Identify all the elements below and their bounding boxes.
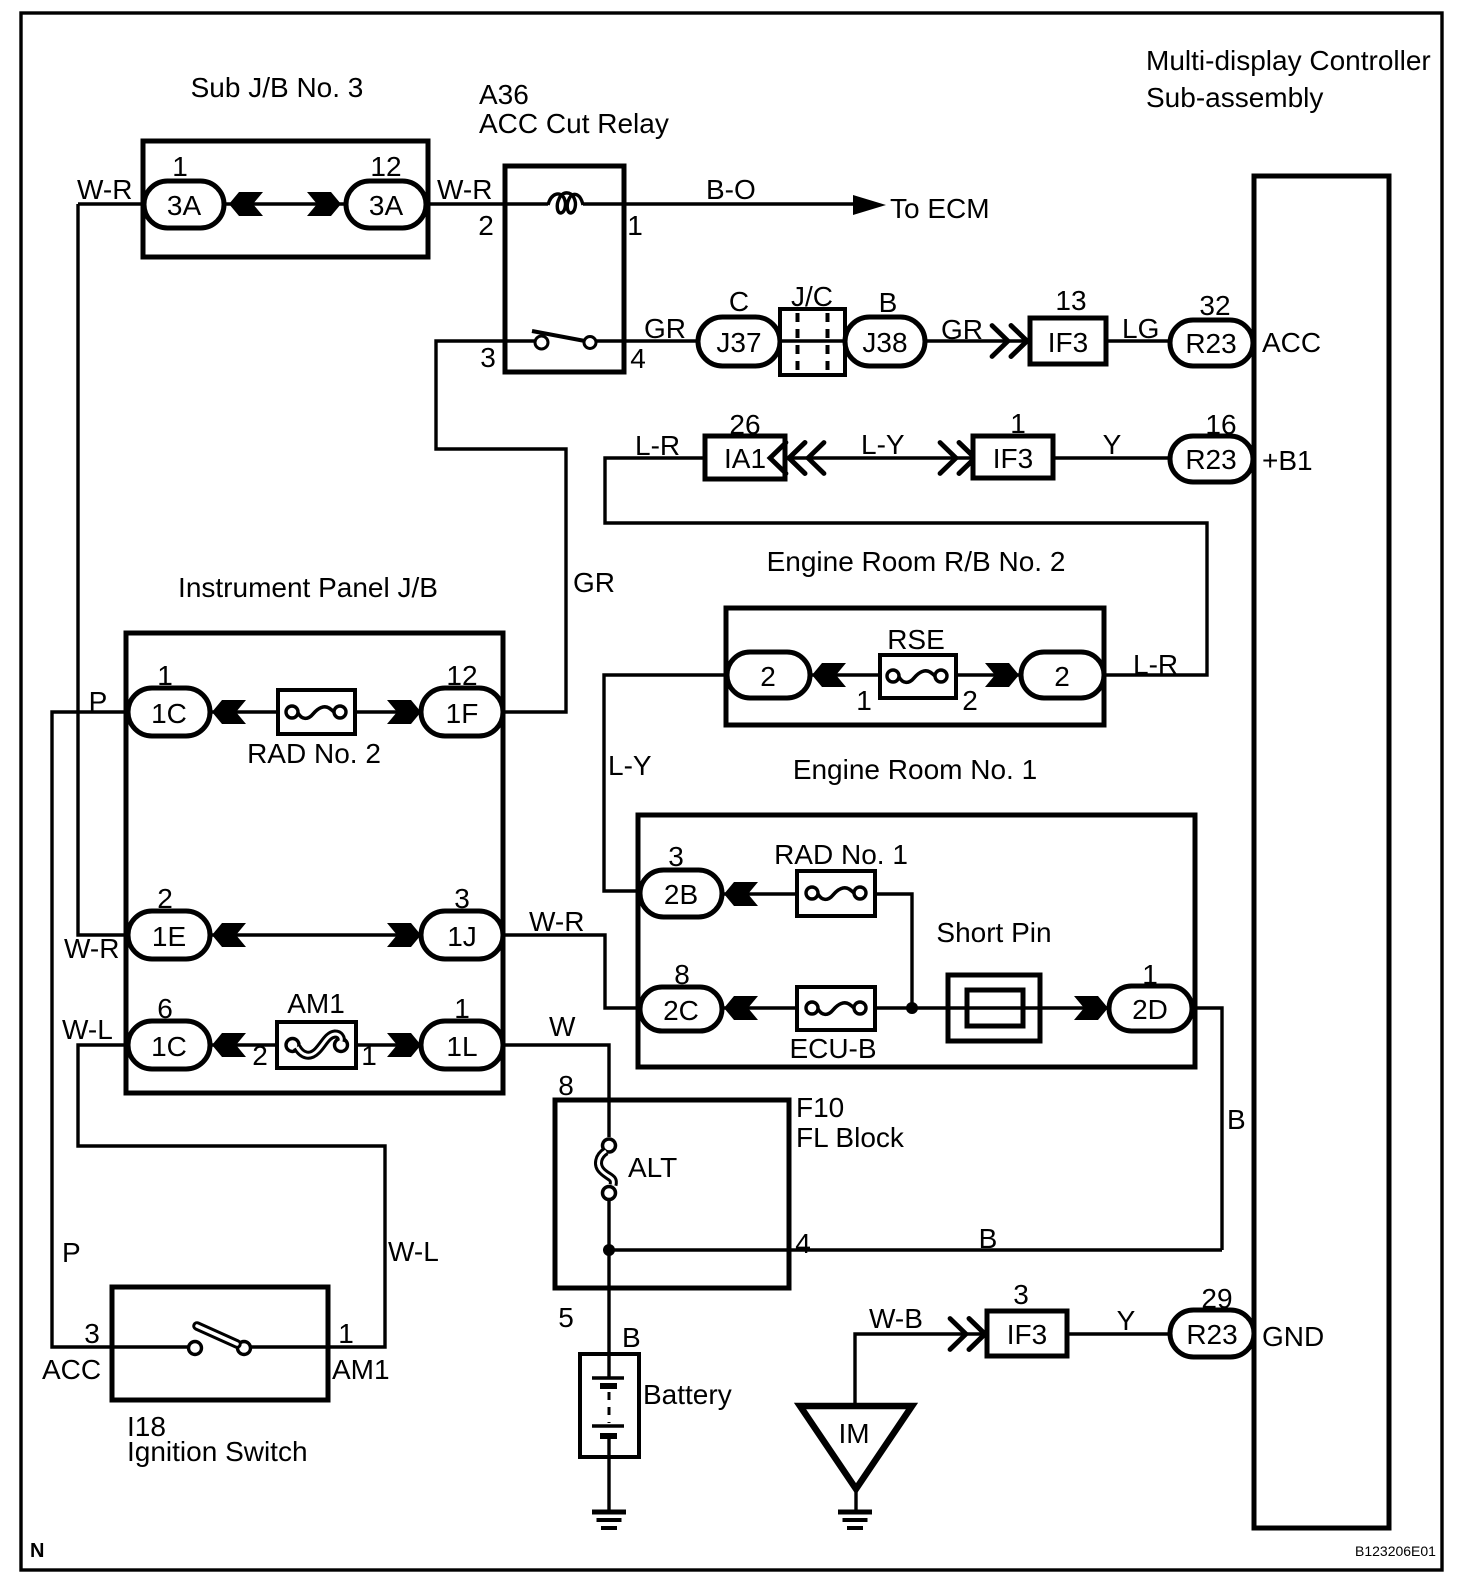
wire row 1 (210, 710, 421, 713)
fusible link AM1 symbol (286, 1034, 348, 1055)
fuse RAD No.1 box (797, 871, 875, 916)
svg-text:FL Block: FL Block (796, 1122, 905, 1153)
svg-text:R23: R23 (1186, 1319, 1237, 1350)
svg-text:2B: 2B (664, 879, 698, 910)
svg-text:3A: 3A (369, 190, 404, 221)
relay switch blade (532, 331, 585, 341)
svg-text:J/C: J/C (791, 281, 833, 312)
svg-text:W-L: W-L (62, 1014, 113, 1045)
arrow right row1 (387, 700, 421, 724)
arrow right row2 (387, 923, 421, 947)
relay switch contacts (535, 336, 548, 349)
short pin inner box (967, 990, 1023, 1026)
svg-text:26: 26 (729, 409, 760, 440)
Multi-display Controller box (1254, 176, 1389, 1528)
Engine Room No. 1 box (638, 815, 1195, 1067)
svg-text:B: B (1227, 1104, 1246, 1135)
Instrument Panel J/B box (126, 633, 503, 1093)
connector 3A pin 1 (144, 181, 224, 228)
svg-text:4: 4 (630, 343, 646, 374)
wire W-R left into Sub J/B (78, 202, 144, 205)
svg-text:2: 2 (157, 883, 173, 914)
svg-text:Engine Room No. 1: Engine Room No. 1 (793, 754, 1037, 785)
svg-text:Sub J/B No. 3: Sub J/B No. 3 (191, 72, 364, 103)
fusible link ALT (599, 1139, 616, 1200)
svg-text:ACC Cut Relay: ACC Cut Relay (479, 108, 669, 139)
svg-text:3: 3 (84, 1318, 100, 1349)
connector 2D pin 1 (1109, 986, 1192, 1031)
relay switch wires (505, 339, 624, 342)
chevrons right L-Y (940, 443, 975, 474)
svg-text:ECU-B: ECU-B (789, 1033, 876, 1064)
wire GR J38 to IF3 (925, 339, 1030, 342)
svg-text:J38: J38 (862, 327, 907, 358)
svg-text:1: 1 (856, 685, 872, 716)
ignition switch box I18 (112, 1287, 328, 1400)
wire between 3A connectors (224, 202, 344, 205)
fuse RAD No.1 symbol (806, 887, 866, 899)
wire Y (1053, 456, 1170, 459)
svg-text:W-B: W-B (869, 1303, 923, 1334)
arrow left 2B (724, 882, 758, 906)
ground IM (838, 1512, 872, 1528)
wire LG (1106, 339, 1170, 342)
ground battery (592, 1512, 626, 1528)
chevrons W-B (950, 1319, 985, 1350)
svg-text:1J: 1J (447, 921, 477, 952)
connector 2 right (1021, 652, 1104, 698)
junction dot (603, 1244, 615, 1256)
svg-text:W: W (549, 1011, 576, 1042)
svg-text:12: 12 (370, 151, 401, 182)
wire row 3 (210, 1043, 421, 1046)
arrow left at 3A (229, 192, 263, 216)
connector 1L pin 1 (421, 1021, 503, 1069)
svg-text:IF3: IF3 (1048, 327, 1088, 358)
ignition switch blade (197, 1326, 237, 1344)
svg-text:R23: R23 (1185, 444, 1236, 475)
wire L-R from IA1 down and right (605, 458, 1207, 675)
svg-text:GR: GR (573, 567, 615, 598)
svg-text:ALT: ALT (628, 1152, 677, 1183)
arrow right at 3A (307, 192, 341, 216)
svg-text:B: B (879, 287, 898, 318)
connector 1C pin 6 (128, 1021, 210, 1069)
wire W-R Sub J/B to relay (426, 202, 505, 205)
svg-text:To ECM: To ECM (890, 193, 990, 224)
svg-text:4: 4 (795, 1228, 811, 1259)
wire B from 2D down (1192, 1008, 1222, 1250)
wire W-L from 1C to ignition switch (78, 1045, 385, 1347)
fuse RSE symbol (887, 670, 947, 682)
fuse RSE box (880, 655, 956, 698)
arrow right row3 (387, 1033, 421, 1057)
svg-text:3: 3 (1013, 1279, 1029, 1310)
svg-text:1: 1 (627, 210, 643, 241)
wire IM to ground (854, 1489, 857, 1511)
Sub J/B No. 3 box (143, 141, 428, 257)
wire W-B from IM up and right (855, 1334, 987, 1406)
svg-text:Multi-display Controller: Multi-display Controller (1146, 45, 1431, 76)
svg-text:RAD No. 1: RAD No. 1 (774, 839, 908, 870)
svg-text:GND: GND (1262, 1321, 1324, 1352)
svg-text:P: P (62, 1237, 81, 1268)
svg-text:AM1: AM1 (287, 988, 345, 1019)
svg-text:B123206E01: B123206E01 (1355, 1543, 1436, 1559)
FL block F10 box (555, 1100, 789, 1288)
svg-text:F10: F10 (796, 1092, 844, 1123)
svg-text:W-R: W-R (64, 933, 119, 964)
svg-text:1L: 1L (446, 1031, 477, 1062)
connector IF3 pin 13 (1030, 318, 1106, 364)
connector 1C pin 1 (128, 688, 210, 736)
arrow left row3 (212, 1033, 246, 1057)
wire battery to ground (607, 1439, 610, 1511)
svg-text:1: 1 (454, 993, 470, 1024)
svg-text:1F: 1F (446, 698, 479, 729)
wire GR from relay pin 3 down to 1F (436, 341, 566, 712)
svg-text:+B1: +B1 (1262, 445, 1313, 476)
svg-text:N: N (30, 1540, 44, 1562)
svg-text:6: 6 (157, 993, 173, 1024)
svg-text:Battery: Battery (643, 1379, 732, 1410)
svg-text:B: B (979, 1223, 998, 1254)
svg-text:2C: 2C (663, 995, 699, 1026)
svg-text:8: 8 (674, 959, 690, 990)
svg-text:8: 8 (558, 1070, 574, 1101)
svg-text:2: 2 (962, 685, 978, 716)
wire RSE row (810, 673, 1021, 676)
arrow left row2 (212, 923, 246, 947)
svg-text:IF3: IF3 (1007, 1319, 1047, 1350)
wire Y to R23 (1067, 1332, 1170, 1335)
fuse RAD No.2 box (278, 690, 355, 734)
svg-text:2: 2 (1054, 661, 1070, 692)
svg-text:1E: 1E (152, 921, 186, 952)
connector 1J pin 3 (421, 911, 503, 959)
svg-text:29: 29 (1201, 1283, 1232, 1314)
connector 2C pin 8 (640, 987, 722, 1031)
svg-text:RAD No. 2: RAD No. 2 (247, 738, 381, 769)
arrow left row1 (212, 700, 246, 724)
arrow right RSE (985, 663, 1019, 687)
fuse ECU-B symbol (806, 1002, 866, 1014)
connector J37 (698, 317, 780, 366)
connector 1F pin 12 (421, 688, 503, 736)
svg-text:1: 1 (338, 1318, 354, 1349)
junction block J/C (780, 309, 845, 375)
svg-text:2: 2 (478, 210, 494, 241)
svg-text:ACC: ACC (42, 1354, 101, 1385)
triangle IM (800, 1406, 912, 1489)
connector R23 pin 16 (1170, 436, 1253, 482)
svg-text:Engine Room R/B No. 2: Engine Room R/B No. 2 (767, 546, 1066, 577)
svg-text:IM: IM (838, 1418, 869, 1449)
arrow right 2D (1074, 996, 1108, 1020)
wire 2B to fuse RAD No.1 (722, 892, 797, 895)
wire row 2 (210, 933, 421, 936)
relay A36 box (505, 166, 624, 372)
relay coil (548, 193, 583, 213)
connector 1E pin 2 (128, 911, 210, 959)
connector IA1 pin 26 (705, 436, 785, 479)
svg-text:Y: Y (1117, 1305, 1136, 1336)
svg-text:1: 1 (1010, 408, 1026, 439)
wire B from FL block pin 4 to 2D wire (609, 1248, 1222, 1251)
wire L-Y between chevrons (785, 456, 973, 459)
svg-text:Short Pin: Short Pin (936, 917, 1051, 948)
wire pin 4 to J37 (624, 339, 698, 342)
svg-text:A36: A36 (479, 79, 529, 110)
wire L-Y from left 2 connector (604, 675, 727, 891)
svg-text:W-R: W-R (437, 174, 492, 205)
svg-text:1: 1 (157, 660, 173, 691)
fuse ECU-B box (797, 987, 875, 1030)
svg-text:3: 3 (480, 342, 496, 373)
connector J38 (845, 317, 925, 366)
wire from RAD No.1 down to 2C row (875, 894, 912, 1008)
wire B-O to ECM (624, 202, 856, 205)
svg-text:C: C (729, 286, 749, 317)
wire from ALT down through battery (607, 1201, 610, 1377)
wire W-R from 1J to 2C (503, 935, 640, 1008)
wire 2C row (722, 1006, 1109, 1009)
svg-text:W-L: W-L (388, 1236, 439, 1267)
svg-text:13: 13 (1055, 285, 1086, 316)
connector 2 left (727, 652, 810, 698)
svg-text:12: 12 (446, 660, 477, 691)
svg-text:1C: 1C (151, 1031, 187, 1062)
junction dot (906, 1002, 918, 1014)
svg-text:L-R: L-R (1133, 649, 1178, 680)
svg-text:B: B (622, 1322, 641, 1353)
svg-text:LG: LG (1122, 313, 1159, 344)
wire W-R vertical left side down to 1E (78, 204, 128, 935)
svg-text:1: 1 (172, 151, 188, 182)
svg-text:1: 1 (361, 1040, 377, 1071)
chevrons GR (992, 326, 1027, 357)
svg-text:GR: GR (941, 314, 983, 345)
svg-text:AM1: AM1 (332, 1354, 390, 1385)
wire W from 1L to FL block (503, 1045, 609, 1137)
svg-text:32: 32 (1199, 290, 1230, 321)
svg-text:2: 2 (252, 1040, 268, 1071)
svg-text:J37: J37 (716, 327, 761, 358)
connector IF3 pin 3 (987, 1311, 1067, 1356)
svg-text:Ignition Switch: Ignition Switch (127, 1436, 308, 1467)
svg-text:1C: 1C (151, 698, 187, 729)
wire P from 1C to ignition switch (52, 712, 188, 1347)
svg-text:IF3: IF3 (993, 443, 1033, 474)
fuse AM1 box (277, 1022, 356, 1068)
arrow to ECM (853, 195, 886, 215)
short pin outer box (948, 975, 1040, 1041)
connector 3A pin 12 (346, 181, 426, 228)
ignition switch contacts (189, 1342, 202, 1355)
svg-text:3: 3 (668, 841, 684, 872)
battery plates (592, 1378, 624, 1439)
arrow left 2C (724, 996, 758, 1020)
Engine Room R/B No. 2 box (726, 608, 1104, 725)
connector 2B pin 3 (640, 870, 722, 917)
svg-text:2: 2 (760, 661, 776, 692)
svg-text:ACC: ACC (1262, 327, 1321, 358)
svg-text:W-R: W-R (77, 174, 132, 205)
svg-text:16: 16 (1205, 409, 1236, 440)
connector IF3 pin 1 (973, 436, 1053, 478)
svg-text:L-Y: L-Y (608, 750, 652, 781)
fuse RAD No.2 symbol (286, 706, 346, 718)
svg-text:L-R: L-R (635, 430, 680, 461)
battery box (580, 1354, 639, 1457)
connector R23 pin 29 (1170, 1310, 1254, 1357)
svg-text:R23: R23 (1185, 328, 1236, 359)
relay coil wire (505, 202, 624, 205)
svg-text:IA1: IA1 (724, 443, 766, 474)
svg-text:3A: 3A (167, 190, 202, 221)
connector R23 pin 32 (1170, 320, 1253, 366)
svg-text:2D: 2D (1132, 994, 1168, 1025)
svg-text:L-Y: L-Y (861, 429, 905, 460)
chevrons left L-Y (770, 443, 805, 474)
svg-text:RSE: RSE (887, 624, 945, 655)
svg-text:B-O: B-O (706, 174, 756, 205)
svg-text:Sub-assembly: Sub-assembly (1146, 82, 1323, 113)
svg-text:GR: GR (644, 313, 686, 344)
svg-text:Y: Y (1103, 429, 1122, 460)
svg-text:Instrument Panel J/B: Instrument Panel J/B (178, 572, 438, 603)
svg-text:3: 3 (454, 883, 470, 914)
svg-text:1: 1 (1142, 959, 1158, 990)
arrow left RSE (812, 663, 846, 687)
svg-text:5: 5 (558, 1302, 574, 1333)
svg-text:W-R: W-R (529, 906, 584, 937)
